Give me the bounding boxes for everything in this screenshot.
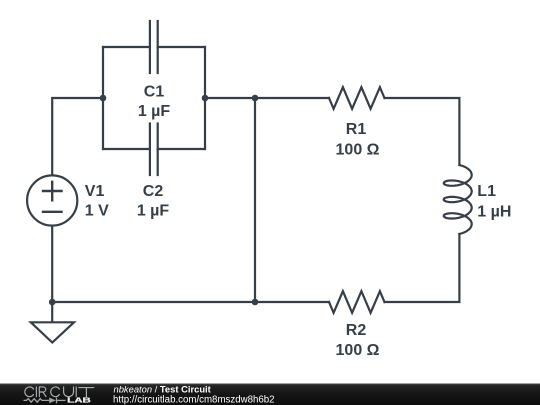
node junction xyxy=(49,299,56,306)
footer bar xyxy=(0,384,540,405)
logo letter U xyxy=(64,387,74,397)
logo letter I xyxy=(75,387,77,397)
svg-text:L1: L1 xyxy=(477,183,496,200)
wire xyxy=(205,97,329,99)
logo letter C xyxy=(51,387,60,397)
svg-text:1 µH: 1 µH xyxy=(477,204,511,221)
svg-text:1 µF: 1 µF xyxy=(138,103,171,120)
svg-text:100 Ω: 100 Ω xyxy=(336,342,380,359)
wire xyxy=(385,98,460,165)
svg-text:LAB: LAB xyxy=(67,395,91,404)
wire xyxy=(52,98,102,175)
ground xyxy=(31,302,74,343)
node junction xyxy=(252,299,259,306)
svg-text:nbkeaton / Test Circuit: nbkeaton / Test Circuit xyxy=(114,384,211,395)
wire xyxy=(51,227,53,302)
svg-text:R2: R2 xyxy=(346,322,367,339)
wire xyxy=(254,98,256,302)
wire xyxy=(385,234,460,302)
logo letter C xyxy=(25,387,34,397)
svg-text:C2: C2 xyxy=(143,183,164,200)
node junction xyxy=(100,95,107,102)
svg-text:100 Ω: 100 Ω xyxy=(336,141,380,158)
wire xyxy=(204,47,206,149)
voltage source V1 xyxy=(27,175,77,225)
capacitor C2 xyxy=(103,124,205,176)
logo letter R xyxy=(39,387,46,397)
inductor L1 xyxy=(444,165,472,234)
svg-text:V1: V1 xyxy=(85,183,105,200)
svg-text:R1: R1 xyxy=(346,121,367,138)
svg-text:C1: C1 xyxy=(144,83,165,100)
svg-text:1 V: 1 V xyxy=(85,203,109,220)
resistor R2 xyxy=(329,291,385,313)
node junction xyxy=(252,95,259,102)
svg-text:1 µF: 1 µF xyxy=(137,203,170,220)
logo letter T xyxy=(79,388,94,397)
logo resistor-diode glyph xyxy=(24,398,66,404)
node junction xyxy=(202,95,209,102)
resistor R1 xyxy=(329,87,385,109)
wire xyxy=(102,47,104,149)
logo letter I xyxy=(35,387,37,397)
svg-text:http://circuitlab.com/cm8mszdw: http://circuitlab.com/cm8mszdw8h6b2 xyxy=(113,394,275,405)
capacitor C1 xyxy=(103,21,205,73)
wire xyxy=(52,301,329,303)
